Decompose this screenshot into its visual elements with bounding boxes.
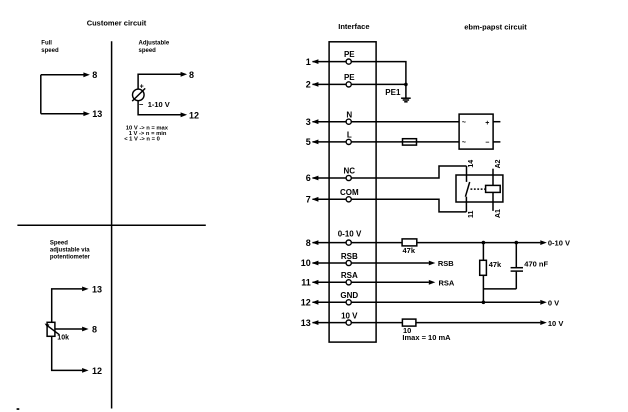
terminal circle 2 (PE) (346, 82, 351, 87)
wire C1/R2 bottom link (483, 288, 516, 290)
wire pot top to terminal 13 (52, 287, 89, 323)
wire terminal 7 (COM) to relay pin 11 (313, 199, 467, 212)
svg-text:RSA: RSA (439, 279, 455, 288)
resistor R2 lead (482, 243, 484, 303)
svg-text:8: 8 (189, 70, 194, 80)
svg-text:Customer circuit: Customer circuit (87, 18, 147, 27)
svg-text:8: 8 (92, 324, 97, 334)
svg-text:47k: 47k (403, 246, 416, 255)
fuse F1 (403, 139, 417, 145)
svg-text:PE: PE (344, 73, 355, 82)
svg-text:~: ~ (462, 119, 466, 126)
label: Adjustable speed (139, 41, 170, 54)
relay coil lead A2-A1 (492, 169, 494, 211)
svg-text:5: 5 (306, 137, 311, 147)
svg-text:COM: COM (340, 188, 359, 197)
svg-text:10: 10 (301, 258, 311, 268)
svg-text:+: + (140, 83, 144, 90)
wire terminal 13 (10 V) to output (313, 320, 547, 325)
stray mark (17, 408, 20, 410)
voltage source G1 (1-10 V) (132, 88, 145, 101)
svg-text:A2: A2 (495, 159, 502, 168)
divider vertical line (111, 41, 113, 408)
svg-text:A1: A1 (495, 209, 502, 218)
relay contact pin 11 lead (465, 197, 467, 212)
label: Speed adjustable via potentiometer (50, 240, 91, 260)
terminal circle 3 (N) (346, 119, 351, 124)
wire terminal 1 to PE1 node (313, 62, 406, 98)
arrow terminal 2 (312, 82, 319, 87)
wire full-speed top to terminal 8 (41, 72, 90, 77)
svg-text:adjustable via: adjustable via (50, 248, 90, 254)
arrow terminal 7 (312, 197, 319, 202)
label: Full speed (41, 41, 59, 54)
svg-text:Adjustable: Adjustable (139, 41, 170, 47)
svg-text:7: 7 (306, 195, 311, 205)
svg-text:L: L (347, 131, 352, 140)
relay contact blade (465, 182, 469, 197)
svg-text:0 V: 0 V (548, 299, 559, 308)
svg-text:< 1 V -> n = 0: < 1 V -> n = 0 (124, 136, 160, 142)
wire source bottom to terminal 12 (138, 101, 187, 118)
relay contact pin 14 lead (466, 166, 468, 182)
svg-text:11: 11 (301, 278, 311, 288)
svg-text:12: 12 (301, 298, 311, 308)
svg-text:12: 12 (92, 366, 102, 376)
wire terminal 8 (0-10 V) to output (313, 240, 547, 245)
svg-text:0-10 V: 0-10 V (548, 239, 570, 248)
wire full-speed bottom to terminal 13 (41, 111, 90, 116)
resistor R3 10 (series 10 V) (402, 319, 416, 326)
svg-text:13: 13 (301, 318, 311, 328)
svg-text:11: 11 (468, 210, 475, 218)
terminal circle 7 (COM) (346, 197, 351, 202)
wire terminal 3 (N) to rectifier (313, 121, 460, 123)
svg-text:13: 13 (92, 109, 102, 119)
svg-text:2: 2 (306, 80, 311, 90)
arrow terminal 13 (312, 320, 319, 325)
potentiometer R 10k body (47, 322, 55, 336)
svg-text:RSB: RSB (341, 252, 358, 261)
svg-text:GND: GND (340, 291, 358, 300)
arrow terminal 3 (312, 119, 319, 124)
relay K1 outline (456, 175, 503, 202)
capacitor C1 top lead (515, 243, 517, 268)
terminal circle 5 (L) (346, 139, 351, 144)
terminal circle 12 (GND) (346, 300, 351, 305)
potentiometer wiper arrow (45, 324, 60, 335)
junction PE1 (404, 83, 408, 87)
wire source top to terminal 8 (138, 72, 187, 89)
svg-text:10k: 10k (57, 334, 69, 341)
svg-text:−: − (485, 139, 489, 146)
svg-text:speed: speed (41, 48, 59, 54)
resistor R1 47k (series) (402, 239, 417, 246)
svg-text:1: 1 (306, 57, 311, 67)
note: voltage to speed mapping (124, 125, 169, 142)
relay coil body (486, 185, 501, 192)
svg-text:NC: NC (344, 167, 356, 176)
svg-text:470 nF: 470 nF (524, 260, 548, 269)
wire terminal 5 (L) to rectifier (313, 141, 460, 143)
dashed actuation link (471, 188, 487, 190)
svg-text:Speed: Speed (50, 240, 68, 246)
capacitor C1 plates (511, 268, 523, 271)
wire pot wiper to terminal 8 (55, 327, 89, 332)
wire terminal 6 (NC) to relay pin 14 (313, 166, 467, 178)
svg-text:RSB: RSB (438, 259, 454, 268)
arrow terminal 8 (312, 240, 319, 245)
svg-text:−: − (139, 100, 144, 109)
terminal circle 6 (NC) (346, 175, 351, 180)
svg-text:Interface: Interface (338, 22, 369, 31)
junction R2 bottom (482, 301, 486, 305)
arrow terminal 6 (312, 176, 319, 181)
arrow terminal 11 (312, 280, 319, 285)
wire terminal 10 (RSB) (313, 261, 436, 266)
svg-text:6: 6 (306, 173, 311, 183)
svg-text:~: ~ (462, 140, 466, 147)
junction C1 top (515, 241, 519, 245)
arrow terminal 1 (312, 59, 319, 64)
rectifier output stub + (493, 121, 500, 123)
svg-text:ebm-papst circuit: ebm-papst circuit (464, 22, 527, 31)
wire terminal 2 to PE1 node (313, 83, 406, 85)
svg-text:Full: Full (41, 41, 52, 47)
svg-text:12: 12 (189, 110, 199, 120)
divider horizontal line (17, 224, 205, 226)
arrow terminal 10 (312, 261, 319, 266)
svg-text:10 V: 10 V (341, 311, 358, 320)
svg-text:13: 13 (92, 284, 102, 294)
ground PE1 (401, 98, 411, 102)
svg-text:potentiometer: potentiometer (50, 255, 91, 261)
svg-text:10 V: 10 V (548, 319, 563, 328)
terminal circle 1 (PE) (346, 59, 351, 64)
svg-text:N: N (346, 110, 352, 119)
svg-text:PE: PE (344, 50, 355, 59)
wire pot bottom to terminal 12 (52, 336, 89, 373)
svg-text:1-10 V: 1-10 V (148, 100, 170, 109)
svg-text:PE1: PE1 (385, 88, 401, 97)
terminal circle 8 (0-10 V) (346, 240, 351, 245)
svg-text:0-10 V: 0-10 V (338, 230, 362, 239)
arrow terminal 5 (312, 140, 319, 145)
arrow terminal 12 (312, 300, 319, 305)
rectifier output stub &#8722; (493, 141, 500, 143)
bridge rectifier V1 (459, 114, 493, 149)
svg-text:3: 3 (306, 117, 311, 127)
svg-text:47k: 47k (489, 260, 502, 269)
svg-text:Imax = 10 mA: Imax = 10 mA (402, 333, 451, 342)
terminal circle 13 (10 V) (346, 320, 351, 325)
junction R2 top (482, 241, 486, 245)
terminal circle 11 (RSA) (346, 280, 351, 285)
svg-text:14: 14 (468, 160, 475, 168)
wire terminal 12 (GND) to 0 V (313, 300, 547, 305)
interface terminal block outline (329, 42, 376, 342)
wire terminal 11 (RSA) (313, 280, 436, 285)
svg-text:+: + (485, 120, 489, 127)
resistor R2 47k (shunt) (480, 260, 487, 275)
svg-text:8: 8 (92, 70, 97, 80)
terminal circle 10 (RSB) (346, 260, 351, 265)
svg-text:8: 8 (306, 238, 311, 248)
svg-text:RSA: RSA (341, 271, 358, 280)
svg-text:speed: speed (139, 48, 157, 54)
capacitor C1 bottom lead (515, 272, 517, 289)
wire full-speed vertical (40, 75, 42, 114)
